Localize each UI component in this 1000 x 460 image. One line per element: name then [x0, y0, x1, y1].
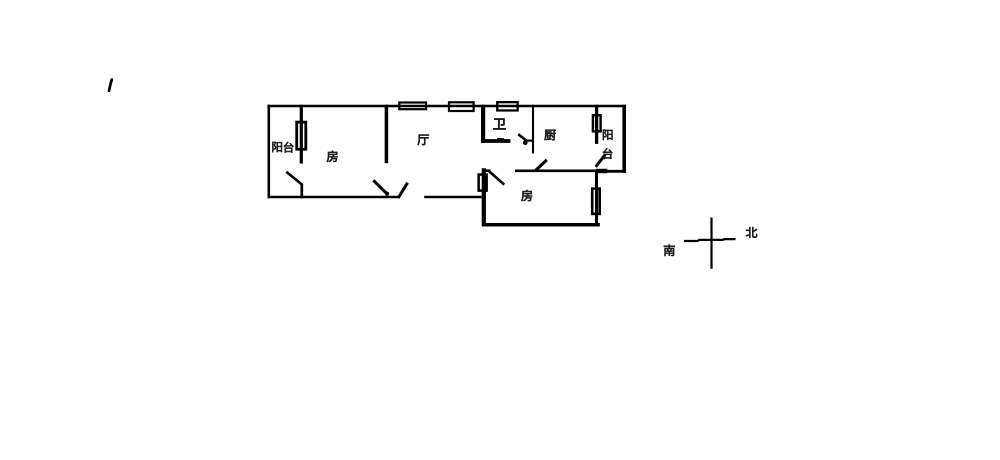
wall top [267, 105, 626, 108]
door balcony-left leaf [300, 184, 303, 198]
wall bath south [481, 139, 510, 143]
wall bottom-left (hall south, east part) [424, 196, 483, 199]
wall left (balcony west) [267, 105, 270, 199]
label room-left 房 [327, 151, 338, 162]
wall bath south top tick [497, 138, 504, 140]
compass label 北 [746, 227, 757, 238]
stray pen mark [109, 80, 112, 91]
wall balcony/room divider [300, 105, 303, 164]
label balcony-right 阳 [603, 130, 613, 140]
wall balcony-right south [596, 170, 626, 173]
door room-left swing [373, 180, 388, 195]
door balcony-left swing [286, 172, 302, 185]
wall bedroom west [482, 168, 486, 226]
label balcony-right 台 [603, 148, 613, 159]
door bath tick [526, 140, 533, 142]
wall bedroom north [515, 170, 598, 173]
window hall north W1 [399, 103, 426, 110]
label bath 卫 [493, 119, 505, 130]
wall balcony-right south thick overdraw [596, 169, 607, 173]
label balcony-left 阳 [272, 142, 282, 152]
window balcony-right north W4 [593, 115, 601, 131]
wall right (balcony east) [622, 105, 626, 173]
window bath north W3 [497, 102, 517, 110]
wall bedroom north stub [482, 169, 490, 172]
door balcony-right swing [596, 155, 606, 167]
label hall 厅 [418, 135, 429, 145]
label balcony-left 台 [284, 142, 294, 153]
window bedroom east W7 [592, 189, 600, 214]
compass horizontal line [684, 239, 736, 241]
wall bath west [481, 105, 485, 143]
label bedroom 房 [521, 190, 532, 201]
wall bedroom south [482, 223, 600, 227]
window hall north W2 [449, 102, 474, 111]
label kitchen 厨 [544, 130, 555, 141]
wall bottom-left (hall south, west part) [268, 196, 400, 199]
compass vertical line [710, 218, 712, 269]
door entry leaf [398, 183, 407, 198]
wall bath/kitchen divider [532, 105, 534, 154]
wall bedroom east [595, 170, 598, 227]
door bedroom swing [489, 171, 504, 185]
window balcony-left W5 [297, 122, 306, 149]
door kitchen swing [536, 160, 547, 171]
wall kitchen/balcony divider [595, 105, 598, 144]
door bath hinge blob [523, 140, 528, 145]
window bedroom west W6 [479, 175, 487, 191]
door bath swing [518, 134, 526, 140]
compass label 南 [664, 245, 675, 256]
door room-left hinge blob [385, 192, 389, 196]
wall room/hall divider [385, 105, 389, 164]
